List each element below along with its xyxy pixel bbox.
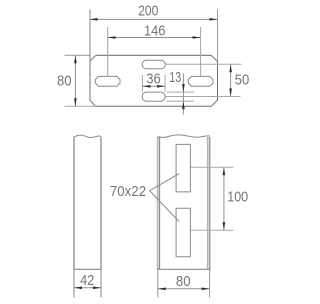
right strip: bottom edge [157,268,211,270]
svg-text:70x22: 70x22 [110,183,146,200]
svg-text:80: 80 [176,273,191,290]
dimension 80 bottom: arrows [158,288,166,291]
leader 70x22 [150,174,180,222]
svg-text:13: 13 [169,69,181,86]
dimension 80 bottom: dim line [158,288,210,290]
dimension 50 right: extension lines [165,63,242,65]
dimension 100: extension lines [190,166,234,168]
dimension 200: dim line [90,18,218,20]
dimension 13: extension lines [167,91,195,93]
right slot (chamfered obround) [188,76,213,86]
right strip: right edge band [207,137,211,269]
dimension 42: arrows [74,287,82,290]
svg-text:36: 36 [146,70,161,87]
upper middle slot (rounded ends) [142,60,165,69]
lower middle slot (rounded ends) [142,92,165,101]
dimension 80 left: arrows [74,56,77,64]
dimension 200: arrows [90,18,98,21]
dimension 200: extension lines [89,10,91,61]
svg-text:146: 146 [144,23,165,40]
dimension 146: dim line [108,37,201,39]
dimension 50 right: arrows [229,64,232,72]
right strip: lower slot 70x22 [176,208,190,257]
left strip: bottom edge [74,268,101,270]
dimension 36: dim line [142,85,165,87]
dimension 13: dim line (vertical, arrows outside) [182,74,184,115]
svg-text:100: 100 [227,188,248,205]
left strip (bottom view): edges [73,137,75,269]
dimension 36: extension lines [141,75,143,92]
dimension 80 left: extension lines [65,54,91,56]
left strip: break line (wavy top) [74,135,101,137]
dimension 36: arrows [143,85,151,88]
right strip (bottom view): left edge band [157,137,161,269]
svg-text:200: 200 [138,2,158,19]
svg-text:80: 80 [57,73,72,90]
right strip: break line (wavy top) [157,135,209,138]
dimension 80 left: dim line [74,55,76,106]
right strip: upper slot 70x22 [176,144,190,192]
dimension 50 right: dim line [230,64,232,96]
dimension 42: dim line [74,287,101,289]
dimension 100: arrows [223,167,226,175]
svg-text:42: 42 [80,272,94,289]
plate outline (top view, chamfered corners) [96,54,212,56]
dimension 146: extension lines [107,27,109,76]
dimension 42: extension lines [73,269,75,297]
dimension 80 bottom: extension lines [157,269,159,297]
dimension 146: arrows [108,36,116,39]
dimension 100: dim line [223,167,225,230]
left slot (chamfered obround) [95,76,120,86]
svg-text:50: 50 [235,71,250,88]
